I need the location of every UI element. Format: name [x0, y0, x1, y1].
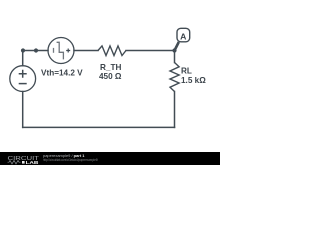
- watermark logo square mark: [22, 161, 25, 164]
- svg-text:LAB: LAB: [26, 160, 39, 165]
- svg-text:paperexample9 / part 1: paperexample9 / part 1: [43, 153, 85, 158]
- svg-text:R_TH: R_TH: [100, 63, 121, 72]
- plus sign: [19, 70, 27, 78]
- wire from RL bottom to bottom rail: [174, 92, 176, 128]
- wire from Vth source bottom to bottom rail: [22, 92, 24, 128]
- svg-text:A: A: [180, 31, 187, 41]
- wire top-left from junction to step source: [23, 50, 48, 52]
- minus sign: [19, 83, 27, 85]
- node A pointer: [175, 42, 179, 51]
- watermark bar: [0, 152, 220, 165]
- svg-text:1.5 kΩ: 1.5 kΩ: [181, 76, 206, 85]
- voltage source Vth: [10, 66, 36, 92]
- node A box: [177, 28, 190, 42]
- svg-text:http://circuitlab.com/c/3ekdx4: http://circuitlab.com/c/3ekdx4/paperexam…: [43, 158, 99, 162]
- watermark logo zigzag resistor: [8, 161, 21, 164]
- wire from R_TH to node junction: [126, 50, 175, 52]
- svg-text:Vth=14.2 V: Vth=14.2 V: [41, 68, 83, 77]
- junction node dot left: [21, 48, 25, 52]
- wire from step source to R_TH: [74, 50, 98, 52]
- wire right branch junction to RL: [174, 51, 176, 63]
- svg-text:450 Ω: 450 Ω: [99, 72, 122, 81]
- resistor RL: [170, 63, 179, 92]
- svg-text:RL: RL: [181, 67, 192, 76]
- junction node dot at step source terminal: [34, 48, 38, 52]
- resistor R_TH: [98, 46, 126, 56]
- wire left branch down from junction to Vth source: [22, 51, 24, 66]
- junction node dot right (node A): [172, 48, 176, 52]
- voltage source V1 (step waveform source): [48, 38, 74, 64]
- wire bottom rail: [23, 126, 175, 128]
